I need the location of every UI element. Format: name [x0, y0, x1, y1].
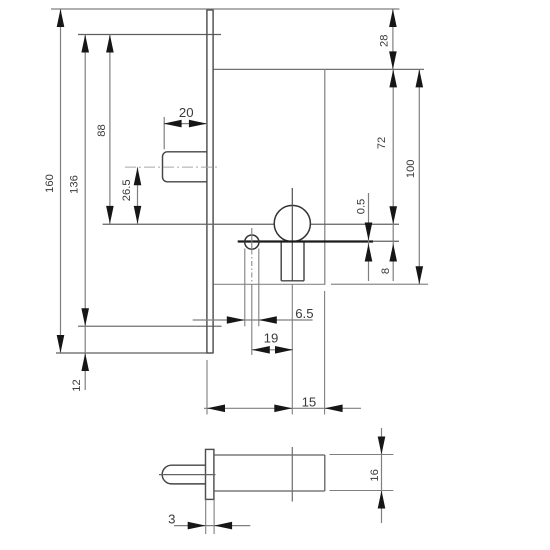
follower centerline — [125, 166, 219, 168]
case top edge y=69.4 — [213, 68, 424, 70]
plate bottom extension y=353 — [56, 352, 207, 354]
svg-text:26.5: 26.5 — [121, 179, 133, 201]
dimension 12 — [71, 326, 89, 391]
dimension 160 — [44, 9, 64, 353]
svg-text:19: 19 — [264, 331, 279, 346]
bottom view case — [214, 455, 325, 491]
cylinder axis line y=224.2 — [103, 223, 275, 225]
svg-text:100: 100 — [405, 159, 417, 178]
dimension 136 — [69, 35, 90, 327]
thin continuation y=241.3 — [373, 240, 399, 242]
extension line top y=9 — [51, 8, 399, 10]
svg-text:160: 160 — [44, 174, 56, 193]
bottom view faceplate — [206, 449, 214, 499]
dimension 15 — [204, 291, 361, 415]
latch face thick line y=241.5 — [238, 240, 373, 242]
cylinder circle — [274, 205, 310, 241]
dimension 100 — [405, 69, 423, 284]
dimension 26.5 — [121, 167, 141, 224]
dimension 0.5 — [356, 193, 373, 281]
case right edge x=324.8 — [324, 69, 326, 284]
screw circle vertical centerline — [251, 228, 253, 250]
svg-text:16: 16 — [369, 469, 381, 481]
svg-text:15: 15 — [302, 394, 317, 409]
dimension 3 — [168, 500, 250, 535]
svg-text:6.5: 6.5 — [295, 306, 313, 321]
faceplate — [206, 10, 213, 353]
dimension 88 — [96, 35, 114, 224]
dimension 28 — [378, 9, 396, 69]
svg-text:136: 136 — [69, 175, 81, 194]
bottom view cylinder nose — [159, 465, 216, 484]
cylinder vertical centerline — [291, 188, 293, 281]
svg-text:20: 20 — [179, 105, 194, 120]
dimension 16 — [330, 428, 394, 523]
screw tangent extension right — [258, 249, 260, 327]
cylinder slot — [281, 242, 304, 281]
svg-text:3: 3 — [168, 511, 175, 526]
svg-text:12: 12 — [71, 379, 83, 391]
svg-text:28: 28 — [378, 35, 390, 47]
case top hidden line y=34.5 — [78, 34, 221, 36]
dimension 6.5 — [193, 306, 314, 324]
follower hub cutout — [163, 152, 208, 182]
dimension 19 — [252, 331, 293, 354]
svg-text:72: 72 — [376, 137, 388, 149]
screw tangent extension left — [244, 249, 246, 327]
svg-text:8: 8 — [380, 268, 392, 274]
dimension 20 — [164, 105, 207, 149]
fixing screw circle — [245, 235, 259, 249]
svg-text:88: 88 — [96, 124, 108, 136]
bottom view cylinder axis — [291, 447, 293, 502]
dimension 72 and 8 — [376, 69, 397, 281]
svg-text:0.5: 0.5 — [356, 199, 368, 215]
bottom reference line y=326.3 — [78, 325, 222, 327]
case bottom edge y=284.3 — [213, 283, 325, 285]
